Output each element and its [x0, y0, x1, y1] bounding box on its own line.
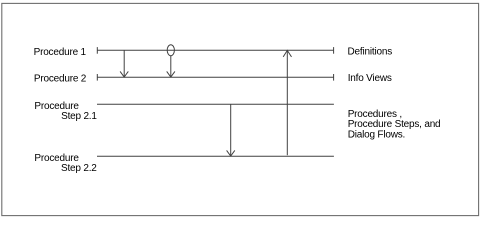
wire: Procedure 1 timeline	[97, 49, 333, 51]
wire: down arrow from Step 2.1 to Step 2.2	[230, 104, 232, 156]
svg-text:Step 2.2: Step 2.2	[61, 163, 97, 174]
svg-text:Procedure Steps, and: Procedure Steps, and	[348, 119, 441, 130]
node: circle marker on Procedure 1 line	[167, 45, 174, 56]
wire: Procedure 2 timeline	[97, 76, 333, 78]
node: left tick of Procedure 1 line	[96, 47, 98, 54]
node: right tick of Procedure 2 line	[333, 74, 335, 81]
svg-text:Procedure 2: Procedure 2	[34, 74, 87, 85]
wire: down arrow from Procedure 1 to Procedure 2	[123, 50, 125, 77]
wire: Procedure Step 2.1 timeline	[97, 103, 334, 105]
node: left tick of Procedure 2 line	[96, 74, 98, 81]
wire: Procedure Step 2.2 timeline	[97, 155, 334, 157]
svg-text:Procedures ,: Procedures ,	[348, 109, 402, 120]
svg-text:Step 2.1: Step 2.1	[61, 111, 97, 122]
svg-text:Procedure 1: Procedure 1	[34, 47, 87, 58]
wire: up arrow from Step 2.2 to Procedure 1	[286, 51, 288, 156]
node: right tick of Procedure 1 line	[333, 47, 335, 54]
svg-text:Info Views: Info Views	[348, 73, 392, 84]
wire: down arrow from circle to Procedure 2	[170, 56, 172, 77]
svg-text:Definitions: Definitions	[348, 47, 393, 58]
svg-text:Dialog Flows.: Dialog Flows.	[348, 130, 405, 141]
